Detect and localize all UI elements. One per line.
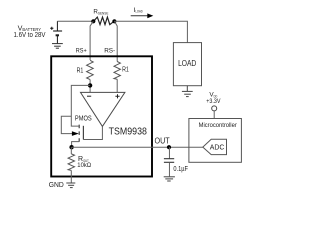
svg-text:1.6V to 28V: 1.6V to 28V <box>14 30 47 39</box>
svg-text:Microcontroller: Microcontroller <box>199 122 238 129</box>
chip TSM9938 box <box>51 56 152 176</box>
node RS+ junction dot <box>91 19 95 23</box>
wire source: node to PMOS <box>71 85 90 126</box>
svg-text:10kΩ: 10kΩ <box>77 162 91 169</box>
wire RSENSE to load corner <box>114 21 187 42</box>
wire op-amp output to gate <box>83 126 102 139</box>
wire ROUT to ground <box>70 170 72 183</box>
svg-text:ADC: ADC <box>210 142 225 151</box>
svg-text:GND: GND <box>49 180 64 189</box>
svg-text:0.1µF: 0.1µF <box>173 165 188 173</box>
node A junction dot <box>88 83 92 87</box>
ADC input pentagon <box>203 139 227 154</box>
svg-text:PMOS: PMOS <box>75 116 92 123</box>
wire OUT across to ADC <box>72 146 203 148</box>
svg-text:RS-: RS- <box>104 47 115 54</box>
ground (battery) <box>52 44 63 49</box>
svg-text:LOAD: LOAD <box>178 59 196 68</box>
svg-text:R1: R1 <box>77 67 84 74</box>
wire RS- dot down to chip <box>114 21 117 61</box>
node capacitor junction dot <box>167 145 171 149</box>
wire battery to RS+ node <box>57 20 93 22</box>
ground (load) <box>182 86 193 97</box>
node OUT junction dot (drain) <box>69 145 73 149</box>
svg-text:OUT: OUT <box>155 136 170 145</box>
arrow ILOAD <box>131 15 148 17</box>
svg-text:RSENSE: RSENSE <box>93 9 108 16</box>
svg-text:ILOAD: ILOAD <box>134 7 143 14</box>
resistor R1 right <box>114 62 120 80</box>
svg-text:+3.3V: +3.3V <box>206 98 221 105</box>
battery V1 <box>53 21 62 43</box>
svg-text:RS+: RS+ <box>76 47 87 54</box>
node RS- junction dot <box>112 19 116 23</box>
op-amp minus sign <box>87 95 91 97</box>
battery plus sign <box>50 27 53 30</box>
wire VDD to microcontroller <box>213 111 215 119</box>
svg-text:TSM9938: TSM9938 <box>109 127 148 138</box>
capacitor C1 0.1uF <box>168 147 170 158</box>
transistor PMOS channel segments <box>78 125 80 142</box>
svg-text:R1: R1 <box>122 66 129 73</box>
wire R1 right bottom to op-amp plus input <box>116 79 118 92</box>
resistor ROUT <box>68 154 74 171</box>
wire R1 left bottom to node <box>89 80 91 86</box>
resistor R1 left <box>87 60 94 79</box>
microcontroller box <box>189 119 242 163</box>
resistor RSENSE <box>94 17 115 25</box>
wire bulk tie <box>61 116 73 133</box>
wire node to op-amp minus input <box>89 85 91 92</box>
wire RS+ dot down to chip <box>90 21 93 60</box>
load box <box>173 43 201 86</box>
op-amp plus sign <box>115 94 119 98</box>
bulk arrowhead <box>72 131 79 136</box>
ground (capacitor) <box>164 177 175 181</box>
op-amp U1 <box>81 92 125 126</box>
wire node down to ROUT <box>70 147 72 154</box>
wire drain to output node <box>72 142 80 148</box>
transistor PMOS gate bar <box>82 126 84 140</box>
terminal VDD circle <box>212 106 217 111</box>
ground (chip) <box>66 183 75 188</box>
